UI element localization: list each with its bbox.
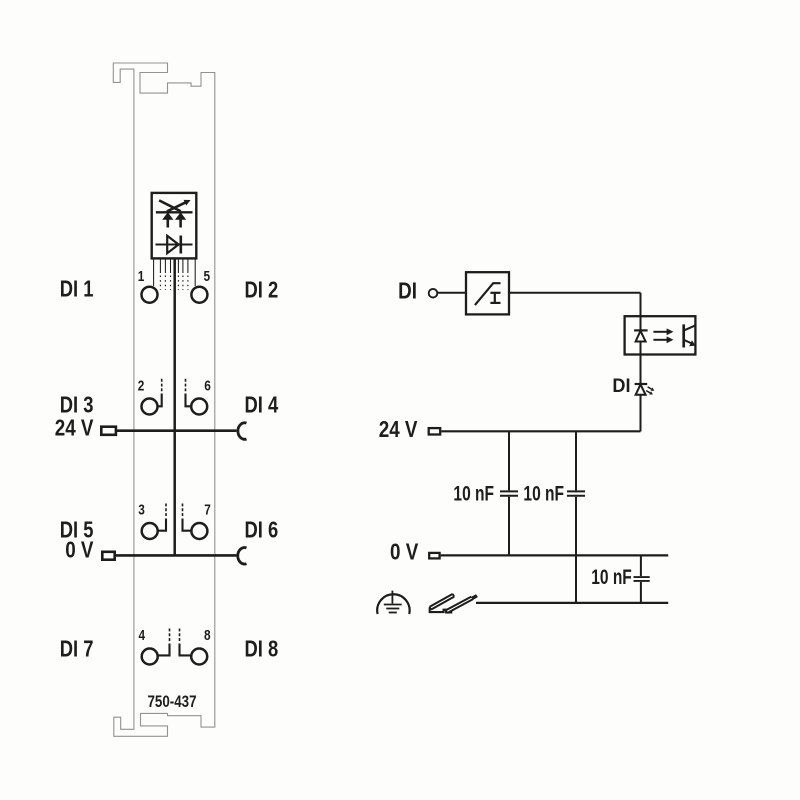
svg-text:DI 8: DI 8 <box>245 636 279 661</box>
svg-text:7: 7 <box>204 501 211 518</box>
svg-text:8: 8 <box>204 627 211 644</box>
svg-text:DI 3: DI 3 <box>60 392 94 417</box>
svg-text:2: 2 <box>138 377 145 394</box>
svg-text:0 V: 0 V <box>390 540 418 565</box>
svg-text:DI: DI <box>398 279 417 304</box>
svg-text:DI 2: DI 2 <box>245 277 279 302</box>
svg-text:DI 4: DI 4 <box>245 392 279 417</box>
svg-text:24 V: 24 V <box>55 416 94 441</box>
svg-text:4: 4 <box>139 627 146 644</box>
svg-text:24 V: 24 V <box>379 417 418 442</box>
svg-text:750-437: 750-437 <box>147 693 196 712</box>
svg-text:10 nF: 10 nF <box>453 481 494 505</box>
svg-text:DI 1: DI 1 <box>60 277 94 302</box>
svg-text:0 V: 0 V <box>65 538 93 563</box>
svg-text:DI: DI <box>612 374 630 396</box>
svg-text:1: 1 <box>138 268 145 285</box>
svg-text:DI 7: DI 7 <box>60 636 94 661</box>
svg-text:10 nF: 10 nF <box>523 481 564 505</box>
svg-text:3: 3 <box>138 501 145 518</box>
svg-text:6: 6 <box>204 377 211 394</box>
svg-text:5: 5 <box>204 268 211 285</box>
svg-text:DI 6: DI 6 <box>245 518 279 543</box>
svg-text:10 nF: 10 nF <box>591 564 632 588</box>
